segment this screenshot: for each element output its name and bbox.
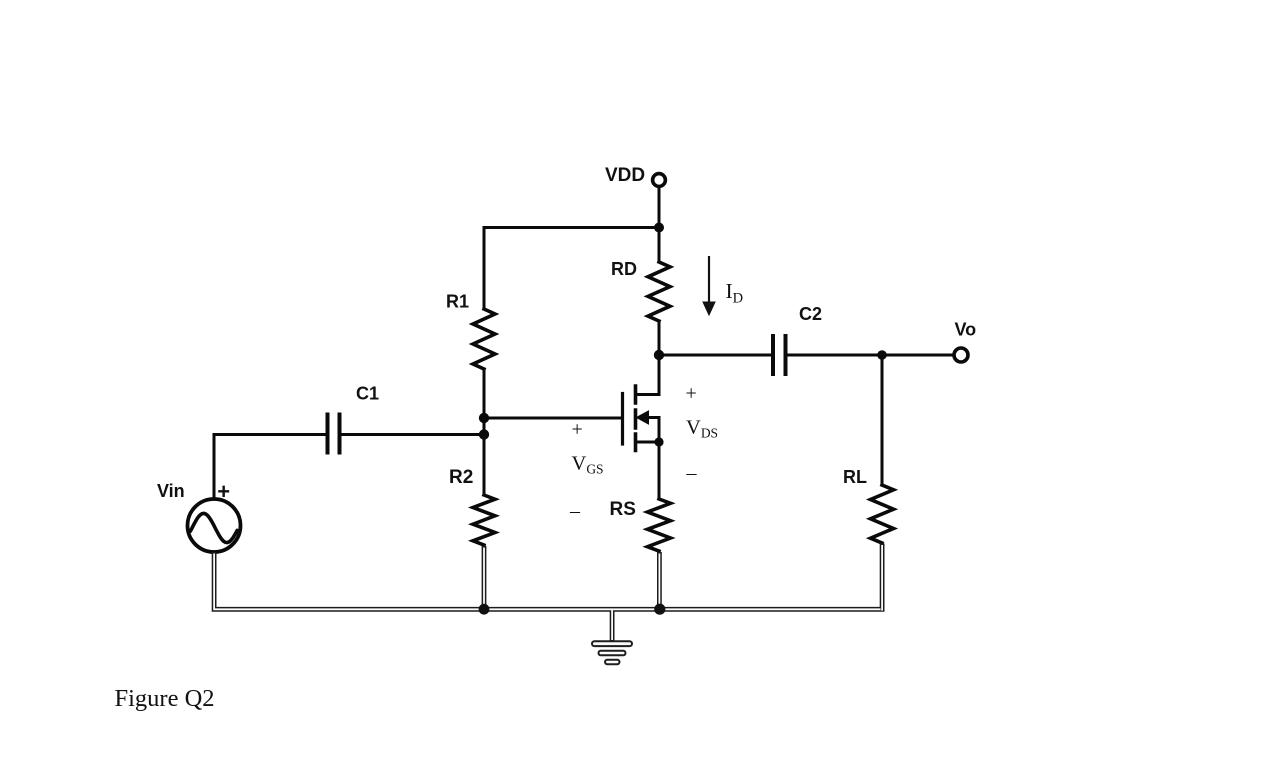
svg-text:ID: ID [726, 279, 744, 307]
wire Vin to C1 [214, 435, 326, 499]
svg-text:VDD: VDD [605, 165, 645, 186]
transistor Q1 channel dashes [634, 386, 638, 451]
capacitor C1 [328, 415, 340, 453]
svg-text:VGS: VGS [572, 453, 604, 477]
svg-text:RD: RD [611, 259, 637, 279]
junction node Vo/RL [877, 350, 887, 360]
wire R1 top [483, 228, 486, 310]
source Vin sine wave [190, 513, 237, 542]
svg-text:R1: R1 [446, 292, 469, 312]
svg-text:–: – [686, 462, 698, 484]
source Vin circle [188, 499, 241, 552]
svg-text:C2: C2 [799, 304, 822, 324]
resistor RL [871, 485, 894, 543]
svg-text:–: – [569, 500, 581, 522]
transistor Q1 gate bar [621, 394, 624, 445]
transistor Q1 drain tap [636, 393, 660, 396]
svg-text:VDS: VDS [686, 417, 718, 441]
svg-text:Figure Q2: Figure Q2 [115, 685, 215, 712]
ground stem [610, 608, 615, 642]
svg-text:RS: RS [610, 499, 636, 520]
wire source to RS [658, 442, 661, 499]
wire R2 down to bus [482, 546, 487, 609]
junction node RS-bus [654, 604, 665, 615]
ground bar 2 [599, 651, 626, 656]
junction node at VDD rail [654, 223, 664, 233]
capacitor C2 [773, 336, 786, 374]
svg-text:+: + [686, 383, 697, 405]
wire Vo node down to RL [881, 355, 884, 485]
wire R1 bottom to R2 [483, 369, 486, 495]
svg-text:Vin: Vin [157, 481, 185, 501]
svg-text:Vo: Vo [955, 320, 977, 340]
svg-text:C1: C1 [356, 384, 379, 404]
resistor R1 [473, 309, 495, 369]
wire RS down to bus [657, 552, 662, 609]
resistor RS [648, 499, 671, 551]
svg-text:+: + [572, 419, 583, 441]
ground bar 1 [592, 641, 632, 646]
transistor Q1 body wire [645, 418, 659, 443]
wire drain vertical into MOSFET [636, 355, 660, 395]
resistor R2 [473, 495, 495, 545]
svg-text:RL: RL [843, 467, 867, 487]
wire VDD stem [658, 187, 661, 226]
svg-text:R2: R2 [449, 467, 473, 488]
terminal VDD [653, 174, 666, 187]
terminal Vo [954, 348, 968, 362]
wire C2 to Vo [787, 354, 952, 357]
junction node drain [654, 350, 664, 360]
ground bus rail (double line) [214, 544, 882, 642]
wire RD bottom to drain node [658, 321, 661, 355]
transistor Q1 body arrowhead [637, 411, 649, 424]
bus double-line white cores [214, 545, 882, 640]
transistor Q1 source tap [636, 441, 660, 444]
junction node gate [479, 413, 489, 423]
junction node input [479, 429, 489, 439]
wire top rail to R1 [484, 226, 659, 229]
junction node R2-bus [479, 604, 490, 615]
wire gate from divider node [484, 417, 621, 420]
svg-text:+: + [217, 479, 230, 504]
wire input node to C1 [340, 433, 484, 436]
resistor RD [648, 262, 670, 321]
junction node source/body [654, 437, 663, 446]
wire drain node to C2 [659, 354, 771, 357]
ground bar 3 [605, 660, 620, 664]
wire RD top [658, 228, 661, 263]
current arrow ID [703, 256, 715, 315]
